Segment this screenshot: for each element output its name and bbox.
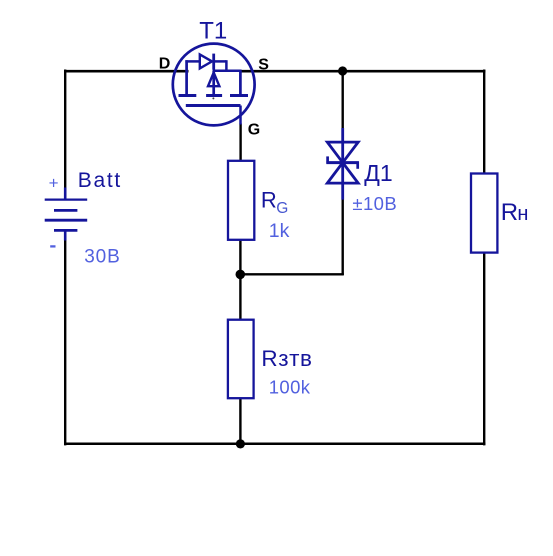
channel bar left <box>179 94 197 97</box>
wire gate G to RG <box>239 124 241 161</box>
svg-text:T1: T1 <box>199 18 227 45</box>
substrate vertical <box>212 71 215 95</box>
zener value ±10В <box>352 193 397 214</box>
wire top from transistor S to right corner <box>240 70 485 73</box>
battery label Batt <box>78 169 122 192</box>
wire node to zener branch horizontal <box>240 273 343 275</box>
wire left vertical (battery bottom lead) <box>64 240 66 446</box>
wire RG bottom to node <box>239 241 241 276</box>
resistor RG value 1k <box>269 220 290 242</box>
node junction dot bottom rail <box>236 439 245 448</box>
gate lead down <box>239 106 242 125</box>
svg-text:D: D <box>159 56 171 73</box>
bottom triangle <box>327 163 358 184</box>
svg-text:R: R <box>261 187 277 212</box>
svg-text:Batt: Batt <box>78 169 122 192</box>
svg-text:±10В: ±10В <box>352 193 397 214</box>
resistor Rзтв value 100k <box>269 377 311 398</box>
svg-text:G: G <box>248 122 260 139</box>
channel bar right <box>230 94 248 97</box>
left lead vertical D <box>185 60 188 94</box>
pin label D <box>159 56 171 73</box>
resistor RG label <box>261 187 288 216</box>
svg-text:30В: 30В <box>84 246 121 267</box>
pin label S <box>258 56 269 73</box>
body diode triangle <box>200 54 212 68</box>
svg-text:+: + <box>49 173 59 192</box>
battery minus sign <box>50 245 55 247</box>
battery value 30В <box>84 246 121 267</box>
zener label Д1 <box>364 160 392 186</box>
transistor label T1 <box>199 18 227 45</box>
pin label G <box>248 122 260 139</box>
wire Rзтв bottom <box>239 399 241 446</box>
gate bar <box>186 104 241 107</box>
wire right vertical lower (Rн to bottom) <box>483 253 485 445</box>
channel bar middle <box>206 94 222 97</box>
svg-text:Rзтв: Rзтв <box>261 346 312 371</box>
transistor T1 MOSFET circle <box>173 44 255 126</box>
svg-text:100k: 100k <box>269 377 311 398</box>
node junction dot RG/zener/Rзтв <box>236 270 246 280</box>
wire left vertical (battery top lead) <box>64 70 66 189</box>
wire top from battery to transistor D <box>64 70 189 73</box>
left zener tick up <box>326 156 329 163</box>
top triangle <box>327 142 358 163</box>
middle bar <box>326 161 359 164</box>
svg-text:Д1: Д1 <box>364 160 392 186</box>
resistor RG body <box>228 161 254 240</box>
transistor T1 internals <box>179 54 249 125</box>
wire bottom horizontal <box>64 443 485 446</box>
diode level horizontal right <box>214 60 227 63</box>
S level horizontal <box>213 70 242 73</box>
substrate arrow <box>208 73 219 87</box>
svg-text:1k: 1k <box>269 220 290 242</box>
right zener tick down <box>356 162 359 169</box>
zener diode Д1 symbol <box>326 128 359 200</box>
resistor Rн body <box>471 174 497 253</box>
svg-text:S: S <box>258 56 269 73</box>
step down to S level <box>225 60 228 71</box>
cathode bar <box>212 54 215 70</box>
wire right vertical upper (S to Rн) <box>483 70 485 174</box>
wire zener top lead <box>342 70 344 130</box>
diode level horizontal left <box>185 60 200 63</box>
transistor substrate dot <box>212 97 214 99</box>
battery plus sign <box>49 173 59 192</box>
wire zener bottom lead <box>342 199 344 275</box>
svg-text:G: G <box>276 200 288 217</box>
node junction dot at S-zener <box>338 66 347 75</box>
resistor Rн label <box>501 199 529 226</box>
wire node to Rзтв top <box>239 274 241 320</box>
resistor Rзтв body <box>228 320 254 399</box>
battery Batt symbol <box>45 188 87 241</box>
right lead vertical S <box>239 71 242 94</box>
lead through symbol <box>341 128 344 200</box>
resistor Rзтв label <box>261 346 312 371</box>
svg-text:R: R <box>501 199 518 226</box>
svg-text:н: н <box>517 203 528 225</box>
